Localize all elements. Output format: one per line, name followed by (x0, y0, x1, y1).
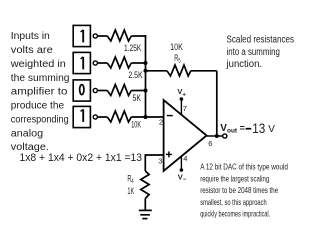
pin 4 stub (180, 157, 182, 171)
svg-text:weighted in: weighted in (10, 59, 66, 70)
label Vout = -13 V (220, 121, 275, 137)
wire row4 to op-amp pin2 (131, 116, 163, 118)
wire pin3 corner down to R4 (144, 154, 146, 171)
junction feedback branch (144, 69, 148, 73)
svg-text:A 12 bit DAC of this type woul: A 12 bit DAC of this type would (200, 162, 288, 172)
svg-text:require the largest scaling: require the largest scaling (200, 173, 269, 183)
junction row3 (144, 89, 148, 93)
svg-text:junction.: junction. (226, 59, 263, 70)
wire input3 to R3 (98, 90, 108, 92)
minus sign (167, 115, 173, 117)
wire R4 to ground (144, 199, 146, 211)
wire R2 to bus (131, 62, 145, 64)
input terminal 3 (93, 88, 97, 92)
resistor R5 10K feedback (167, 65, 191, 76)
svg-text:volts are: volts are (11, 45, 53, 56)
svg-text:the summing: the summing (11, 73, 70, 84)
resistor R1 1.25K (107, 30, 131, 41)
svg-text:10K: 10K (170, 42, 183, 52)
wire R5 to corner (191, 70, 217, 72)
svg-text:7: 7 (183, 104, 187, 113)
svg-text:1.25K: 1.25K (124, 43, 141, 53)
svg-text:4: 4 (183, 154, 187, 163)
svg-text:smallest, so this approach: smallest, so this approach (200, 197, 267, 207)
junction row2 (144, 61, 148, 65)
svg-text:resistor to be 2048 times the: resistor to be 2048 times the (200, 185, 278, 195)
svg-text:3: 3 (158, 157, 162, 166)
caption left paragraph (10, 31, 70, 153)
wire R3 to bus (131, 90, 145, 92)
svg-text:into a summing: into a summing (227, 47, 280, 58)
caption bottom right (200, 162, 288, 219)
svg-text:6: 6 (208, 139, 212, 148)
svg-text:Scaled resistances: Scaled resistances (227, 35, 295, 46)
svg-text:5K: 5K (133, 93, 142, 103)
wire input2 to R2 (98, 62, 108, 64)
resistor R2 2.5K (107, 57, 131, 68)
svg-text:10K: 10K (131, 119, 141, 129)
input terminal 4 (93, 115, 97, 119)
pin 7 dot (180, 97, 184, 101)
plus sign (166, 151, 172, 157)
svg-text:analog: analog (11, 128, 43, 139)
input box bit 2 (73, 52, 90, 73)
input box bit 1 (MSB) (73, 25, 90, 46)
svg-text:2: 2 (159, 117, 163, 126)
svg-text:2.5K: 2.5K (128, 70, 142, 80)
pin 7 stub (180, 99, 182, 114)
op-amp U1 (164, 100, 207, 171)
resistor R4 1K (141, 171, 149, 199)
input box bit 4 (LSB) (73, 106, 90, 127)
pin 4 dot (180, 168, 184, 172)
wire input4 to R4in (98, 116, 108, 118)
svg-text:Inputs in: Inputs in (11, 31, 50, 42)
svg-text:amplifier to: amplifier to (11, 87, 68, 98)
caption top right (226, 35, 294, 71)
svg-text:13: 13 (252, 121, 265, 137)
output terminal (223, 134, 227, 138)
resistor R3 5K (107, 85, 131, 96)
svg-text:V: V (268, 124, 275, 135)
svg-text:quickly becomes impractical.: quickly becomes impractical. (200, 208, 270, 218)
svg-text:1x8 + 1x4 + 0x2 + 1x1 =13: 1x8 + 1x4 + 0x2 + 1x1 =13 (20, 152, 143, 164)
svg-text:1K: 1K (127, 186, 134, 197)
wire bus to R5 (146, 70, 168, 72)
wire input1 to R1 (98, 35, 108, 37)
input box bit 3 (73, 80, 90, 101)
wire pin3 (145, 154, 163, 156)
wire feedback down to output (216, 71, 218, 136)
input terminal 2 (93, 61, 97, 65)
input terminal 1 (93, 34, 97, 38)
junction row4 (144, 115, 148, 119)
svg-text:corresponding: corresponding (11, 115, 69, 126)
junction output feedback (215, 134, 219, 138)
svg-text:produce the: produce the (11, 101, 65, 112)
summing bus wire (145, 35, 147, 117)
wire output (207, 135, 223, 137)
resistor 10K input (107, 111, 131, 122)
ground (139, 210, 152, 218)
wire R1 to bus (131, 35, 146, 37)
